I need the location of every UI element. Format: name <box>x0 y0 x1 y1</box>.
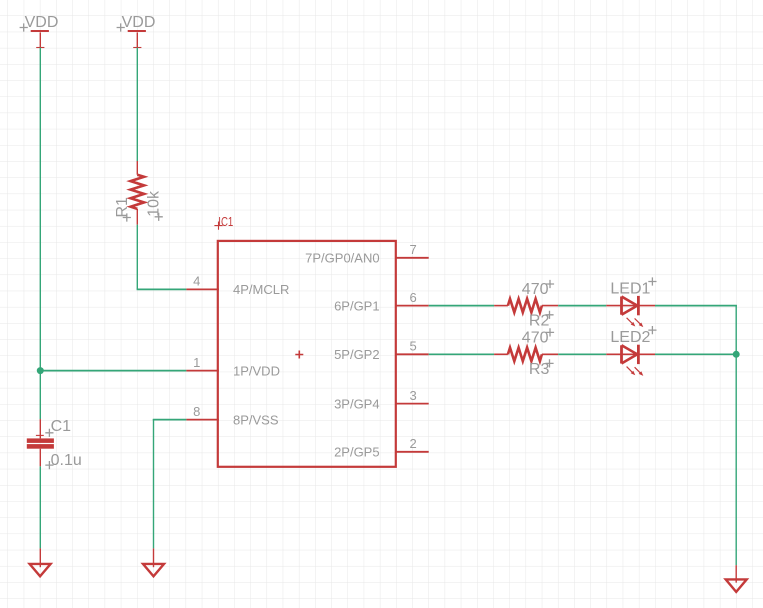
junction at pin1 net <box>37 367 44 374</box>
svg-text:2P/GP5: 2P/GP5 <box>334 445 380 460</box>
ground GND3 <box>726 565 747 592</box>
svg-text:8: 8 <box>193 404 200 419</box>
svg-text:R1: R1 <box>114 197 131 218</box>
svg-text:6P/GP1: 6P/GP1 <box>334 298 380 313</box>
svg-text:VDD: VDD <box>25 14 59 31</box>
capacitor C1 <box>27 419 54 466</box>
wire C1 bottom to ground <box>39 466 41 548</box>
svg-text:R3: R3 <box>529 361 550 378</box>
svg-text:VDD: VDD <box>122 14 156 31</box>
svg-text:7P/GP0/AN0: 7P/GP0/AN0 <box>305 251 379 266</box>
wire R2 to LED1 <box>558 305 606 307</box>
svg-text:3: 3 <box>410 388 417 403</box>
label 0.1u <box>45 461 53 469</box>
svg-text:10k: 10k <box>146 190 163 217</box>
pin 1 stub <box>186 370 219 372</box>
label LED2 <box>648 326 656 334</box>
label VDD (P2) <box>117 23 125 31</box>
svg-text:5P/GP2: 5P/GP2 <box>334 347 380 362</box>
resistor R1 10k <box>131 161 145 225</box>
label LED1 <box>648 277 656 285</box>
wire R1 to pin4 <box>136 225 138 289</box>
svg-text:0.1u: 0.1u <box>51 452 82 469</box>
label R2 <box>545 311 553 319</box>
label 10k <box>155 213 163 221</box>
wire VDD1 rail down to C1 <box>39 48 41 420</box>
pin 4 stub <box>186 288 219 290</box>
svg-text:6: 6 <box>410 290 417 305</box>
pin 8 stub <box>186 419 219 421</box>
svg-text:4P/MCLR: 4P/MCLR <box>233 282 289 297</box>
wire pin8 to GND2 <box>153 419 187 421</box>
resistor R3 470 <box>494 348 558 362</box>
LED2 <box>606 345 655 373</box>
power VDD P1 <box>31 31 49 48</box>
svg-text:5: 5 <box>410 339 417 354</box>
pin 2 stub <box>396 451 429 453</box>
wire pin6 to R2 <box>429 305 494 307</box>
svg-text:8P/VSS: 8P/VSS <box>233 412 279 427</box>
label R1 <box>123 213 131 221</box>
svg-text:1: 1 <box>193 355 200 370</box>
svg-text:470: 470 <box>522 330 549 347</box>
svg-text:IC1: IC1 <box>218 214 233 229</box>
wire right rail down to GND3 <box>735 354 737 565</box>
pin 7 stub <box>396 257 429 259</box>
LED1 <box>606 296 655 324</box>
pin 6 stub <box>396 305 429 307</box>
label C1 <box>45 429 53 437</box>
label IC1 <box>214 222 222 230</box>
junction right rail <box>733 351 740 358</box>
label 470 (R2) <box>546 280 554 288</box>
wire VDD2 to R1 <box>136 48 138 161</box>
IC origin cross <box>295 351 303 359</box>
svg-text:LED2: LED2 <box>610 329 650 346</box>
pin 3 stub <box>396 403 429 405</box>
svg-text:2: 2 <box>410 436 417 451</box>
wire junction to pin1 <box>40 370 186 372</box>
wire LED2 to right rail <box>655 353 736 355</box>
svg-text:470: 470 <box>522 281 549 298</box>
label VDD (P1) <box>20 23 28 31</box>
svg-text:4: 4 <box>193 274 200 289</box>
label R3 <box>545 359 553 367</box>
svg-text:R2: R2 <box>529 312 550 329</box>
svg-text:1P/VDD: 1P/VDD <box>233 363 280 378</box>
pin 5 stub <box>396 353 429 355</box>
wire R3 to LED2 <box>558 353 606 355</box>
svg-text:3P/GP4: 3P/GP4 <box>334 396 380 411</box>
ground GND2 <box>143 548 164 576</box>
wire pin5 to R3 <box>429 353 494 355</box>
svg-text:LED1: LED1 <box>610 281 650 298</box>
wire LED1 to right rail <box>655 305 737 307</box>
IC1 box <box>218 241 396 467</box>
svg-text:7: 7 <box>410 242 417 257</box>
ground GND1 <box>30 548 51 576</box>
svg-text:C1: C1 <box>51 418 72 435</box>
resistor R2 470 <box>494 299 558 313</box>
power VDD P2 <box>128 31 146 48</box>
label 470 (R3) <box>546 328 554 336</box>
